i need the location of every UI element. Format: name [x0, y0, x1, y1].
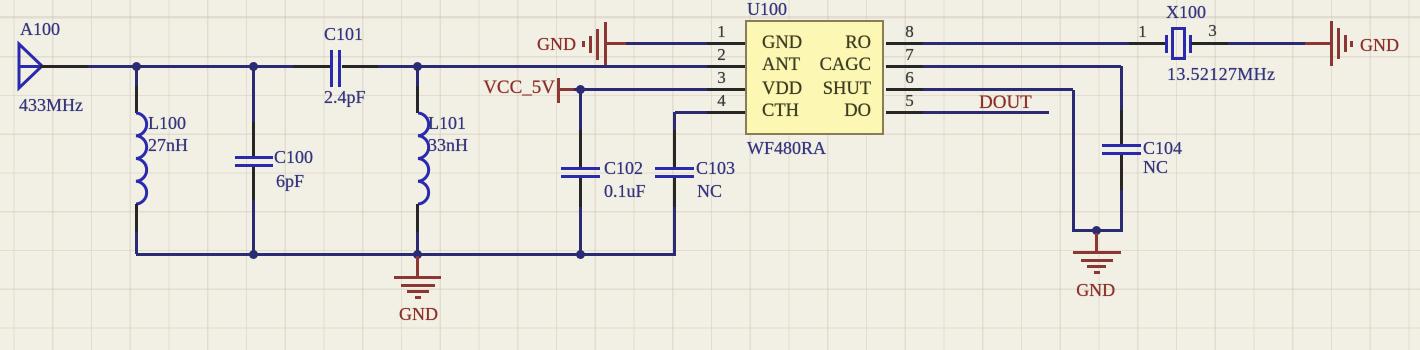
pin 7 of U100 [886, 65, 923, 68]
label GND lower left [319, 304, 519, 325]
crystal X100 [1129, 42, 1165, 45]
pin name DO [844, 101, 871, 122]
pin name RO [845, 33, 871, 54]
pin name CAGC [820, 55, 871, 76]
wire antenna to node1 [88, 65, 136, 68]
power port VCC_5V [483, 77, 555, 99]
value NC [697, 181, 722, 202]
value NC [1143, 157, 1168, 178]
designator C103 [696, 158, 735, 179]
wire node1 to node2 [136, 65, 253, 68]
pin 5 of U100 [886, 111, 923, 114]
value 0.1uF [604, 181, 646, 202]
capacitor C101 [293, 65, 330, 68]
net label DOUT [979, 92, 1032, 114]
value 27nH [148, 135, 188, 156]
capacitor C102 [579, 130, 582, 167]
wire U100 pin4 to C103 [675, 111, 708, 114]
designator L101 [428, 113, 466, 134]
junction C102 bottom [576, 250, 585, 259]
wire L101 to bottom bus [416, 232, 419, 254]
ground symbol lower left [416, 256, 419, 277]
wire node1 down [135, 66, 138, 86]
ground symbol lower right [1095, 233, 1098, 252]
pin name GND [762, 33, 802, 54]
value 13.52127MHz [1167, 64, 1275, 85]
capacitor C100 [252, 122, 255, 156]
value WF480RA [747, 138, 826, 159]
junction node3 [413, 62, 422, 71]
bottom bus wire [136, 253, 675, 256]
wire X100 to GND right [1228, 42, 1305, 45]
junction node2 [249, 62, 258, 71]
wire U100 pin6 down [923, 88, 1073, 91]
pin 1 of U100 [707, 42, 745, 45]
value 2.4pF [324, 87, 366, 108]
wire U100 pin8 to X100 [923, 42, 1129, 45]
pin of A100 [40, 65, 88, 68]
wire VCC to node4 [574, 88, 581, 91]
wire L100 to bottom bus [135, 232, 138, 254]
pin name ANT [762, 55, 800, 76]
pin name CTH [762, 101, 799, 122]
wire node3 down [416, 66, 419, 86]
junction GND stub [413, 250, 422, 259]
value 433MHz [19, 95, 83, 116]
wire C100 to bottom bus [252, 200, 255, 254]
designator C101 [324, 24, 363, 45]
designator X100 [1166, 2, 1206, 23]
designator C104 [1143, 138, 1182, 159]
pin 4 of U100 [707, 111, 745, 114]
pin 3 of U100 [707, 88, 745, 91]
pin name SHUT [823, 79, 871, 100]
pin name VDD [762, 79, 802, 100]
designator C102 [604, 158, 643, 179]
label GND right [1360, 35, 1399, 56]
pin number 1 of X100 [1043, 22, 1243, 42]
wire node3 to U100 pin2 [418, 65, 708, 68]
label GND lower right [996, 280, 1196, 301]
pin 2 of U100 [707, 65, 745, 68]
designator U100 [747, 0, 787, 20]
junction node4 [576, 85, 585, 94]
power port GND top [537, 34, 576, 55]
wire node4 down [579, 90, 582, 131]
wire node2 to C101 [253, 65, 293, 68]
pin number 3 of X100 [1113, 21, 1313, 41]
capacitor C104 [1120, 110, 1123, 144]
wire node4 to U100 pin3 [581, 88, 708, 91]
wire C104 to right bus [1120, 190, 1123, 232]
wire C103 to bottom bus [673, 207, 676, 256]
wire C102 to bottom bus [579, 207, 582, 254]
wire GND to U100 pin1 [626, 42, 707, 45]
junction node1 [132, 62, 141, 71]
wire C101 to node3 [378, 65, 418, 68]
value 33nH [428, 135, 468, 156]
designator A100 [20, 19, 60, 40]
wire node2 down [252, 66, 255, 122]
right bottom bus wire [1073, 229, 1121, 232]
IC U100 body [745, 20, 884, 135]
junction C100 bottom [249, 250, 258, 259]
junction right bus [1092, 226, 1101, 235]
pin 8 of U100 [886, 42, 923, 45]
wire U100 pin7 to C104 [923, 65, 1121, 68]
inductor L100 [135, 86, 138, 113]
power port GND right [1305, 42, 1331, 45]
designator L100 [148, 113, 186, 134]
designator C100 [274, 147, 313, 168]
pin 6 of U100 [886, 88, 923, 91]
capacitor C103 [673, 130, 676, 167]
wire U100 pin5 DOUT [923, 111, 1049, 114]
inductor L101 [416, 86, 419, 113]
value 6pF [276, 171, 304, 192]
antenna A100 [14, 39, 48, 93]
